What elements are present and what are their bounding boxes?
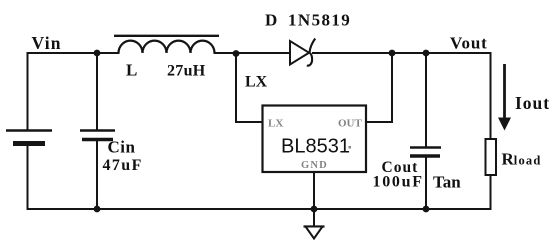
svg-text:Iout: Iout — [515, 93, 550, 113]
svg-text:Vout: Vout — [450, 34, 488, 53]
wire Cin lower — [96, 141, 98, 209]
junction node at OUT/top rail — [389, 50, 396, 57]
capacitor Cin plate bottom thick — [82, 138, 113, 142]
capacitor Cin plate top — [80, 129, 115, 131]
wire ground stub — [313, 209, 315, 226]
svg-text:Tan: Tan — [433, 173, 461, 192]
wire left rail upper (Vin to battery) — [27, 53, 29, 130]
Iout arrow — [503, 64, 506, 119]
svg-text:100uF: 100uF — [373, 174, 424, 191]
junction node at Vin/Cin — [94, 50, 101, 57]
wire OUT pin up to top rail — [366, 53, 392, 122]
svg-text:D: D — [265, 11, 277, 30]
svg-text:Vin: Vin — [32, 33, 62, 53]
svg-text:1N5819: 1N5819 — [288, 11, 351, 30]
wire right rail upper (Vout to Rload) — [490, 53, 492, 139]
capacitor Cout plate top — [410, 146, 441, 148]
svg-text:LX: LX — [268, 118, 283, 130]
junction node at inductor/LX — [233, 50, 240, 57]
capacitor Cout plate bottom thick — [410, 154, 440, 157]
wire Cout upper — [425, 53, 427, 148]
wire GND pin to bottom rail — [313, 172, 315, 209]
wire LX node down to IC pin — [236, 53, 263, 122]
inductor L bar — [114, 35, 219, 37]
svg-text:OUT: OUT — [338, 118, 363, 130]
wire right rail lower (Rload to bottom rail) — [490, 175, 492, 209]
svg-text:Cin: Cin — [108, 138, 136, 157]
junction node at GND/bottom rail — [311, 206, 318, 213]
svg-text:LX: LX — [245, 74, 268, 91]
wire top left segment Vin to inductor — [28, 52, 119, 54]
svg-text:27uH: 27uH — [167, 63, 206, 80]
svg-text:GND: GND — [301, 160, 328, 171]
svg-text:BL8531: BL8531 — [281, 136, 350, 158]
stray mark artifact — [349, 146, 352, 149]
wire Cout lower — [425, 157, 427, 209]
svg-text:L: L — [126, 61, 137, 80]
ground symbol — [304, 225, 325, 227]
wire Cin upper — [96, 53, 98, 130]
battery B1 plate long — [6, 129, 52, 131]
resistor Rload — [486, 139, 497, 175]
wire bottom rail — [28, 208, 491, 210]
junction node at Cin/bottom rail — [94, 206, 101, 213]
junction node at Cout/top rail — [423, 50, 430, 57]
svg-text:47uF: 47uF — [103, 157, 143, 174]
diode D triangle — [290, 41, 309, 65]
wire diode to Vout corner — [313, 52, 491, 54]
IC U1 BL8531 box — [263, 106, 367, 173]
diode D schottky cathode — [307, 39, 315, 66]
wire left rail lower (battery to bottom rail) — [27, 145, 29, 209]
inductor L arcs — [119, 41, 215, 53]
wire inductor to diode — [215, 52, 291, 54]
junction node at Cout/bottom rail — [423, 206, 430, 213]
battery B1 plate short thick — [13, 141, 45, 146]
